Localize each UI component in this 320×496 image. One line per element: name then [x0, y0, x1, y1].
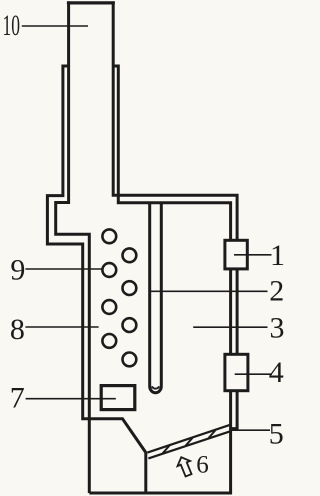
- leader line 9: [25, 268, 103, 270]
- central tube (thermocouple well), rounded bottom: [150, 203, 162, 393]
- svg-text:8: 8: [10, 313, 25, 346]
- chimney inner-left wall + left inner step + body inner-left wall (wire contour): [56, 1, 90, 493]
- svg-text:6: 6: [196, 452, 209, 479]
- bubble circle row A3: [102, 300, 116, 314]
- grate hatch tick 2: [186, 438, 193, 446]
- bubble circle row B1: [122, 248, 136, 262]
- air flow hollow arrow (item 6): [175, 455, 195, 478]
- svg-text:3: 3: [270, 311, 285, 344]
- svg-text:9: 9: [10, 253, 25, 286]
- bubble circle row B4: [122, 353, 136, 367]
- svg-text:5: 5: [269, 418, 284, 451]
- component box 1 on right pipe: [225, 240, 247, 269]
- leader line 8: [25, 326, 98, 328]
- chimney top cap: [67, 1, 115, 4]
- svg-text:2: 2: [269, 274, 284, 307]
- grate hatch tick 3: [209, 430, 216, 438]
- leader line 5: [229, 429, 270, 431]
- central tube inner bottom arc: [152, 386, 159, 388]
- bubble circle row A1: [102, 229, 116, 243]
- svg-text:10: 10: [3, 9, 21, 42]
- chimney inner-right wall + top duct upper line + right pipe outer line: [113, 1, 237, 428]
- svg-text:7: 7: [10, 381, 25, 414]
- svg-text:4: 4: [269, 356, 284, 389]
- grate hatch tick 1: [163, 446, 170, 454]
- leader line 7: [26, 398, 116, 400]
- bubble circle row A2: [102, 263, 116, 277]
- leader line 10: [22, 25, 88, 27]
- svg-text:1: 1: [270, 239, 284, 272]
- leader line 3: [193, 326, 267, 328]
- component box 7 at bottom left: [101, 386, 135, 410]
- bubble circle row B2: [122, 281, 136, 295]
- grate upper rail: [147, 425, 229, 453]
- grate lower rail: [148, 431, 230, 458]
- outer jacket left wall + outer step + shelf + hopper diagonal (wire contour): [47, 66, 145, 493]
- leader line 4: [235, 373, 272, 375]
- component box 4 on right pipe: [225, 354, 248, 390]
- bubble circle row B3: [122, 318, 136, 332]
- leader line 2: [151, 290, 268, 292]
- bubble circle row A4: [102, 334, 116, 348]
- leader line 1: [234, 254, 272, 256]
- outer jacket right wall + top duct lower line + right pipe inner line + bottom box right wall + bottom box floor: [89, 66, 230, 493]
